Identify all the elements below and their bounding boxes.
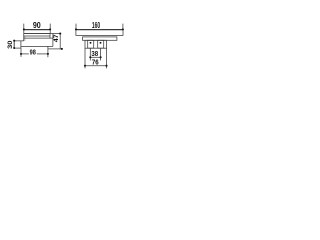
left view: inner front vertical <box>49 34 51 39</box>
dim 98: terminator dot left <box>20 53 22 55</box>
left view: wall plate right edge <box>20 41 22 48</box>
dim 30: dimension line vertical <box>13 41 15 48</box>
screw hole left <box>90 42 92 44</box>
svg-text:90: 90 <box>33 20 41 30</box>
svg-text:38: 38 <box>91 51 98 58</box>
dim 30: terminator dot bottom <box>13 47 15 49</box>
dim 98: dimension line left segment <box>21 53 29 55</box>
svg-text:160: 160 <box>92 20 100 30</box>
dim 76: terminator dot right <box>105 65 107 67</box>
left view: wall plate left edge <box>13 41 15 48</box>
svg-text:30: 30 <box>7 40 14 49</box>
left view: wall plate bottom <box>14 47 21 49</box>
left view: back edge vertical <box>23 34 25 41</box>
dim 90: terminator dot left <box>23 28 25 30</box>
dim 47: terminator dot top <box>59 33 61 35</box>
dim 47: terminator dot bottom <box>61 48 63 50</box>
left view: inner shelf line <box>24 35 50 37</box>
dim 47: bottom reference line <box>48 48 63 50</box>
dim 76: extension line right <box>106 48 108 68</box>
dim 47: dimension line vertical <box>59 34 61 49</box>
dim 90: extension line right <box>49 24 51 30</box>
dim 98: extension line right <box>47 46 49 57</box>
dim 98: dimension line right segment <box>37 53 48 55</box>
left view: rim bottom line <box>24 33 53 35</box>
dim 160: extension line left <box>75 24 77 30</box>
dim 38: terminator dot right <box>100 56 102 58</box>
dim 38: terminator dot left <box>89 56 91 58</box>
right view: bracket box <box>85 40 107 48</box>
dim 38: extension line left <box>89 48 91 60</box>
dim 160: terminator dot right <box>122 28 124 30</box>
svg-text:76: 76 <box>92 60 99 67</box>
dim 38: dimension line <box>90 56 100 58</box>
dim 76: extension line left <box>84 48 86 68</box>
left view: inner bottom line <box>24 37 53 39</box>
right view: post right <box>98 40 104 48</box>
dim 160: terminator dot left <box>75 28 77 30</box>
dim 76: terminator dot left <box>84 65 86 67</box>
svg-text:47: 47 <box>53 34 60 42</box>
left view: front face vertical <box>52 34 54 47</box>
right view: element2 <box>83 37 117 40</box>
left view: wall plate top <box>14 40 24 42</box>
dim 90: terminator dot right <box>49 28 51 30</box>
right view: post left <box>88 40 94 48</box>
dim 98: extension line left <box>20 48 22 57</box>
left view: upper rect (90 wide rim), top edge doubles as dim line <box>24 30 50 34</box>
right view: bar 160, top edge doubles as dim line <box>76 30 123 36</box>
screw hole right <box>100 42 102 44</box>
dim 160: extension line right <box>122 24 124 30</box>
dim 98: terminator dot right <box>47 53 49 55</box>
dim 38: extension line right <box>100 48 102 60</box>
dim 30: terminator dot top <box>13 40 15 42</box>
svg-text:98: 98 <box>30 50 36 57</box>
dim 76: dimension line <box>85 65 107 67</box>
left view: dish bottom line <box>21 45 53 47</box>
dim 90: extension line left <box>23 24 25 30</box>
dim 47: extension line top <box>53 33 61 35</box>
dim 90: dimension line overlay on top edge <box>24 29 50 31</box>
left view: inner edge line a <box>24 36 26 41</box>
dim 160: dimension line overlay on top edge <box>76 29 123 31</box>
